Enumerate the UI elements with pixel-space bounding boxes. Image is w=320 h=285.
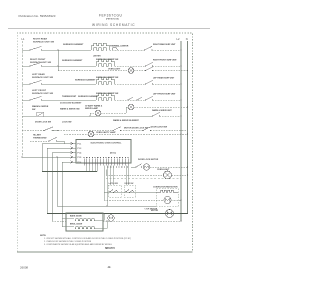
switch S10 warm serve line break: [152, 112, 160, 116]
wire comb drop x104 to rail y200: [103, 166, 105, 201]
wire rail y213.5: [47, 213, 188, 215]
wire rail y221 right: [103, 220, 181, 222]
svg-text:SERVE LAMP: SERVE LAMP: [85, 107, 99, 110]
svg-text:P1-5: P1-5: [78, 157, 82, 159]
junction door lock motor to N: [187, 166, 188, 167]
switch S13 door lock aux: [142, 127, 151, 131]
wire rail6 mid: [44, 115, 90, 117]
svg-text:SURFACE ELEMENT: SURFACE ELEMENT: [75, 79, 96, 82]
connector pin number smudge top: [84, 157, 129, 158]
svg-text:WARM & SERVE UNIT: WARM & SERVE UNIT: [152, 109, 173, 112]
junction rail y221 to L2: [180, 220, 181, 221]
svg-text:LIMITER: LIMITER: [93, 56, 101, 58]
svg-text:Publication No. 5995A5923: Publication No. 5995A5923: [19, 14, 56, 18]
wire rail2 left: [22, 65, 30, 67]
wire rail6 to L2: [160, 115, 182, 117]
wire rail9 corner down: [63, 141, 65, 144]
junction rail8 at L2: [180, 133, 181, 134]
element left rear upper coil: [95, 80, 97, 85]
junction oven light to N: [187, 70, 188, 71]
wire dashed section line: [106, 178, 181, 180]
svg-text:THERMAL LIMITER: THERMAL LIMITER: [110, 45, 129, 48]
switch S16 simmer select contacts: [127, 97, 142, 100]
wire door lock motor rail from EOC: [131, 166, 136, 168]
wire rail4 left: [22, 83, 30, 85]
motor M1 door lock: [143, 164, 149, 170]
lamp courtesy light: [88, 131, 94, 137]
wire rail1 right: [152, 49, 181, 51]
wire comb drop x92: [91, 166, 93, 173]
wire harness vertical x47: [46, 148, 48, 214]
wire comb drop x97 to rail y171.5: [96, 166, 98, 172]
switch S12 door lock limit: [112, 127, 121, 131]
wire rail6 left: [22, 115, 36, 117]
wire rail7 seg4: [121, 130, 144, 132]
limiter switch rail1: [112, 48, 118, 50]
svg-text:DOOR LOCK SW: DOOR LOCK SW: [35, 122, 51, 124]
switch S6 left rear surface unit: [29, 80, 42, 84]
wire oven light rail right: [134, 70, 146, 72]
wire rail1 mid: [42, 49, 92, 51]
svg-text:P1-3: P1-3: [78, 148, 82, 150]
wire EOC pin P1-6: [62, 161, 76, 163]
wire rail7 seg3: [58, 130, 113, 132]
svg-text:1. CIRCUIT SHOWN WITH ALL CON: 1. CIRCUIT SHOWN WITH ALL CONTROLS OFF A…: [44, 237, 131, 240]
wire comb drop x129: [128, 166, 130, 186]
wire drop to oven light rail: [57, 50, 59, 71]
element right front upper coil: [95, 62, 97, 67]
wire oven light to N: [153, 70, 188, 72]
svg-text:3. COMPONENTS SHOWN VS AS E: 3. COMPONENTS SHOWN VS AS EQUIPPED AND M…: [44, 243, 112, 246]
chassis boundary bottom line: [17, 251, 192, 253]
svg-text:SURFACE UNIT SW: SURFACE UNIT SW: [32, 92, 53, 95]
connector comb base line: [84, 162, 128, 164]
svg-text:THERMOSTAT: THERMOSTAT: [62, 95, 77, 98]
wire rail y200 right of motor: [171, 199, 181, 201]
L1 bus wire: [21, 41, 23, 157]
svg-text:2. OVEN DOOR SHOWN IN THE CLO: 2. OVEN DOOR SHOWN IN THE CLOSED POSITIO…: [44, 241, 92, 243]
svg-text:-12-: -12-: [107, 267, 111, 269]
wire door lock motor rail to N: [150, 166, 188, 168]
junction rail7: [57, 130, 58, 131]
wire rail10 under EOC: [42, 171, 97, 173]
switch S2 right rear unit line break: [144, 46, 153, 50]
junction oven light lower to N: [187, 174, 188, 175]
wire rail1 left: [22, 49, 30, 51]
wire harness vertical x57: [56, 157, 58, 206]
wire rail7 left: [22, 130, 44, 132]
junction lamp rail to N: [187, 106, 188, 107]
svg-text:P1-4: P1-4: [78, 151, 82, 154]
wire rail y200 left of motor: [104, 199, 164, 201]
connector P2 comb on EOC bottom: [84, 159, 128, 166]
junction harness x57: [56, 156, 57, 157]
wire EOC pin P1-3: [47, 147, 76, 149]
wire rail4 right: [153, 83, 182, 85]
svg-text:LOCK SW: LOCK SW: [62, 122, 72, 124]
relay K1 contacts: [110, 190, 118, 193]
svg-text:SR61773: SR61773: [105, 248, 115, 250]
svg-text:LEFT FRONT: LEFT FRONT: [32, 90, 47, 92]
element left rear lower coil: [98, 82, 112, 84]
svg-text:CONVECTION FAN MOTOR: CONVECTION FAN MOTOR: [153, 186, 178, 189]
svg-text:WARM & SERVE: WARM & SERVE: [32, 105, 49, 108]
wire oven light lower to N: [172, 174, 188, 176]
svg-text:RIGHT REAR: RIGHT REAR: [33, 38, 48, 41]
wire lamp rail y107 to N: [134, 106, 188, 108]
L2 bus wire: [180, 41, 182, 221]
wire rail2 after element: [115, 65, 146, 67]
junction warm serve lamp branch: [89, 115, 90, 116]
relay K2 contacts: [126, 190, 134, 193]
svg-text:OVEN CAVITY LAMP: OVEN CAVITY LAMP: [96, 131, 116, 134]
junction rail5 to L2: [180, 99, 181, 100]
svg-text:RIGHT FRONT SURF UNIT: RIGHT FRONT SURF UNIT: [153, 60, 177, 62]
wire rail7 seg2: [52, 130, 59, 132]
svg-text:THERMOSTAT: THERMOSTAT: [33, 136, 47, 139]
svg-text:P1-6: P1-6: [78, 162, 82, 164]
svg-text:LEFT FRONT SURF UNIT: LEFT FRONT SURF UNIT: [153, 94, 176, 96]
svg-text:RIGHT REAR SURF UNIT: RIGHT REAR SURF UNIT: [153, 43, 176, 46]
wire rail9 right into EOC: [57, 140, 65, 142]
wire rail6 right segment: [90, 115, 153, 117]
switch S4 right front unit line break: [145, 62, 153, 66]
wire comb drop x110: [109, 166, 111, 186]
junction rail1 to L2: [180, 49, 181, 50]
svg-text:2100/1300W ELEMENT: 2100/1300W ELEMENT: [60, 103, 82, 105]
wire rail4 mid: [42, 83, 97, 85]
svg-text:MOTOR DOOR LOCK SW: MOTOR DOOR LOCK SW: [124, 127, 148, 129]
svg-text:DOOR LOCK MOTOR: DOOR LOCK MOTOR: [138, 159, 159, 161]
wire comb drop x95: [94, 166, 96, 172]
svg-text:MOTOR: MOTOR: [151, 210, 159, 212]
wire broil feed: [62, 226, 74, 228]
lamp L3 warm and serve: [95, 110, 101, 116]
element right rear lower coil: [93, 48, 107, 50]
wire EOC pin P1-4: [52, 152, 76, 154]
wire rail5 mid: [42, 99, 97, 101]
svg-text:FEF367CGU: FEF367CGU: [99, 13, 123, 17]
element left front upper coil: [95, 96, 97, 101]
relay K2 box door switch assembly: [124, 185, 135, 197]
wire rail2 right: [153, 65, 182, 67]
svg-text:WARM & SERVE SW.: WARM & SERVE SW.: [60, 107, 80, 110]
lamp L4 warm zone indicator: [128, 104, 134, 110]
wire lamp branch riser: [89, 113, 91, 116]
connector arrow P1-4: [71, 151, 74, 153]
wire bake out: [95, 220, 104, 222]
wire rail y206: [57, 205, 157, 207]
wire rail2 mid: [42, 65, 97, 67]
wire oven light lower rail: [106, 174, 163, 176]
warm and serve switch box: [37, 112, 44, 117]
junction rail y200 to L2: [180, 199, 181, 200]
svg-text:26008: 26008: [20, 265, 28, 269]
switch S7 left rear unit line break: [145, 80, 153, 84]
svg-text:(EOC): (EOC): [110, 153, 116, 155]
svg-text:OVEN LIGHT: OVEN LIGHT: [157, 169, 170, 171]
wire rail5 right: [153, 99, 182, 101]
svg-text:SW: SW: [32, 109, 35, 111]
wire lamp branch: [90, 112, 95, 114]
wire oven light rail: [58, 70, 128, 72]
relay K1 box door latch switch assembly: [108, 185, 121, 197]
wire rail7 right: [151, 130, 188, 132]
wire rail5 after element: [115, 99, 146, 101]
svg-text:LEFT REAR SURF UNIT: LEFT REAR SURF UNIT: [153, 77, 175, 80]
connector arrow P1-3: [71, 147, 74, 149]
element broil: [75, 227, 95, 229]
wire lamp branch riser2: [125, 107, 127, 113]
wire rail1 after element: [110, 49, 145, 51]
motor M2 convection fan: [164, 196, 171, 203]
convection fan motor box: [157, 189, 179, 207]
svg-text:OVEN LIGHT: OVEN LIGHT: [108, 68, 121, 70]
wire EOC pin P1-5: [22, 156, 76, 158]
svg-text:DOOR SW: DOOR SW: [125, 183, 134, 185]
wire lamp branch dashed: [101, 112, 126, 114]
wire broil out: [95, 228, 107, 230]
svg-text:RIGHT FRONT: RIGHT FRONT: [30, 59, 46, 61]
junction L1 tap to EOC: [21, 156, 23, 158]
junction rail y213.5 to N: [187, 213, 188, 214]
bake broil element box: [66, 213, 103, 231]
header rule: [8, 28, 210, 30]
svg-text:L1: L1: [22, 37, 25, 41]
switch S11 door lock switch: [43, 127, 53, 131]
switch S8 left front surface unit: [29, 96, 42, 100]
svg-text:SURFACE UNIT SW: SURFACE UNIT SW: [32, 76, 53, 79]
wire comb drop x113: [112, 166, 114, 186]
connector arrow P1-6: [71, 161, 74, 163]
chassis boundary dashed border: [17, 33, 192, 252]
junction x107 y206: [106, 205, 107, 206]
junction rail2 to L2: [180, 65, 181, 66]
wire winding leads: [157, 191, 161, 193]
wire harness vertical x62: [61, 162, 63, 227]
N bus wire: [187, 41, 189, 214]
element right front lower coil: [98, 64, 112, 66]
junction rail8 to N: [187, 133, 188, 134]
svg-text:WIRING SCHEMATIC: WIRING SCHEMATIC: [92, 23, 135, 27]
svg-text:SURFACE ELEMENT: SURFACE ELEMENT: [62, 59, 83, 62]
electronic oven control box U1: [76, 140, 131, 164]
switch S3 right front surface unit: [29, 62, 42, 66]
wire rail8 left: [64, 133, 88, 135]
svg-text:10 WATT WARM &: 10 WATT WARM &: [85, 104, 103, 107]
wire rail5 left: [22, 99, 30, 101]
svg-text:(FEF367CGS): (FEF367CGS): [106, 19, 119, 21]
junction rail6 to L2: [180, 115, 181, 116]
wire harness vertical x42: [41, 144, 43, 172]
wire comb drop x126: [125, 166, 127, 186]
junction rail4 to L2: [180, 83, 181, 84]
wire comb drop x89: [89, 166, 91, 173]
wire rail4 after element: [115, 83, 146, 85]
svg-text:LEFT REAR: LEFT REAR: [32, 73, 45, 76]
svg-text:BAKE 2600W: BAKE 2600W: [70, 215, 82, 218]
svg-text:ELECTRONIC OVEN CONTROL: ELECTRONIC OVEN CONTROL: [91, 142, 123, 144]
svg-text:DOOR LATCH SW: DOOR LATCH SW: [151, 126, 167, 129]
svg-text:HI-LIMIT: HI-LIMIT: [33, 135, 42, 137]
wire rail11 through relay boxes: [104, 191, 157, 193]
wire broil riser to rail221: [106, 221, 108, 229]
wire comb drop x106 to oven light rail: [105, 170, 107, 176]
wire bake feed: [62, 218, 74, 220]
element convection motor winding: [160, 190, 174, 192]
svg-text:SURFACE ELEMENT: SURFACE ELEMENT: [63, 43, 84, 46]
wire harness vertical x52: [51, 153, 53, 222]
lamp oven light: [128, 68, 134, 74]
switch S1 right rear surface unit: [29, 46, 42, 50]
switch S14 hi-limit thermostat: [48, 137, 57, 141]
connector arrow P1-1: [71, 142, 74, 144]
wire bake riser to rail213: [103, 214, 105, 221]
svg-text:LATCH SW: LATCH SW: [109, 182, 119, 185]
svg-text:SURFACE UNIT SW: SURFACE UNIT SW: [33, 40, 54, 43]
svg-text:P1-1: P1-1: [78, 143, 82, 145]
wire EOC pin P1-1: [42, 143, 76, 145]
lamp L2 oven light lower: [164, 171, 172, 179]
svg-text:BROIL 3000W: BROIL 3000W: [70, 224, 82, 226]
wire rail9 left: [30, 140, 49, 142]
switch S5 oven light door switch: [145, 67, 153, 71]
wire comb drop x107 to rail y206: [106, 166, 108, 207]
motor M3 oven vent fan: [166, 210, 174, 218]
switch S9 left front unit line break: [145, 96, 153, 100]
connector arrow P1-5: [71, 156, 74, 158]
wire lamp rail y107 left: [126, 106, 128, 108]
element left front lower coil: [98, 98, 112, 100]
svg-text:L2: L2: [177, 37, 180, 41]
svg-text:N: N: [186, 37, 188, 41]
switch S15 door lock motor switch: [135, 164, 142, 168]
wire rail y221 left: [52, 220, 66, 222]
element bake: [75, 219, 95, 221]
connector pin number smudge bottom: [108, 167, 128, 168]
motor M4 door lock drive: [108, 215, 114, 221]
wire rail8 to N: [94, 133, 188, 135]
svg-text:NOTE:: NOTE:: [40, 235, 47, 237]
wire comb drop x86: [86, 166, 88, 173]
svg-text:WARM & SERVE ELEMENT: WARM & SERVE ELEMENT: [113, 119, 140, 122]
element right rear upper coil: [90, 46, 92, 51]
